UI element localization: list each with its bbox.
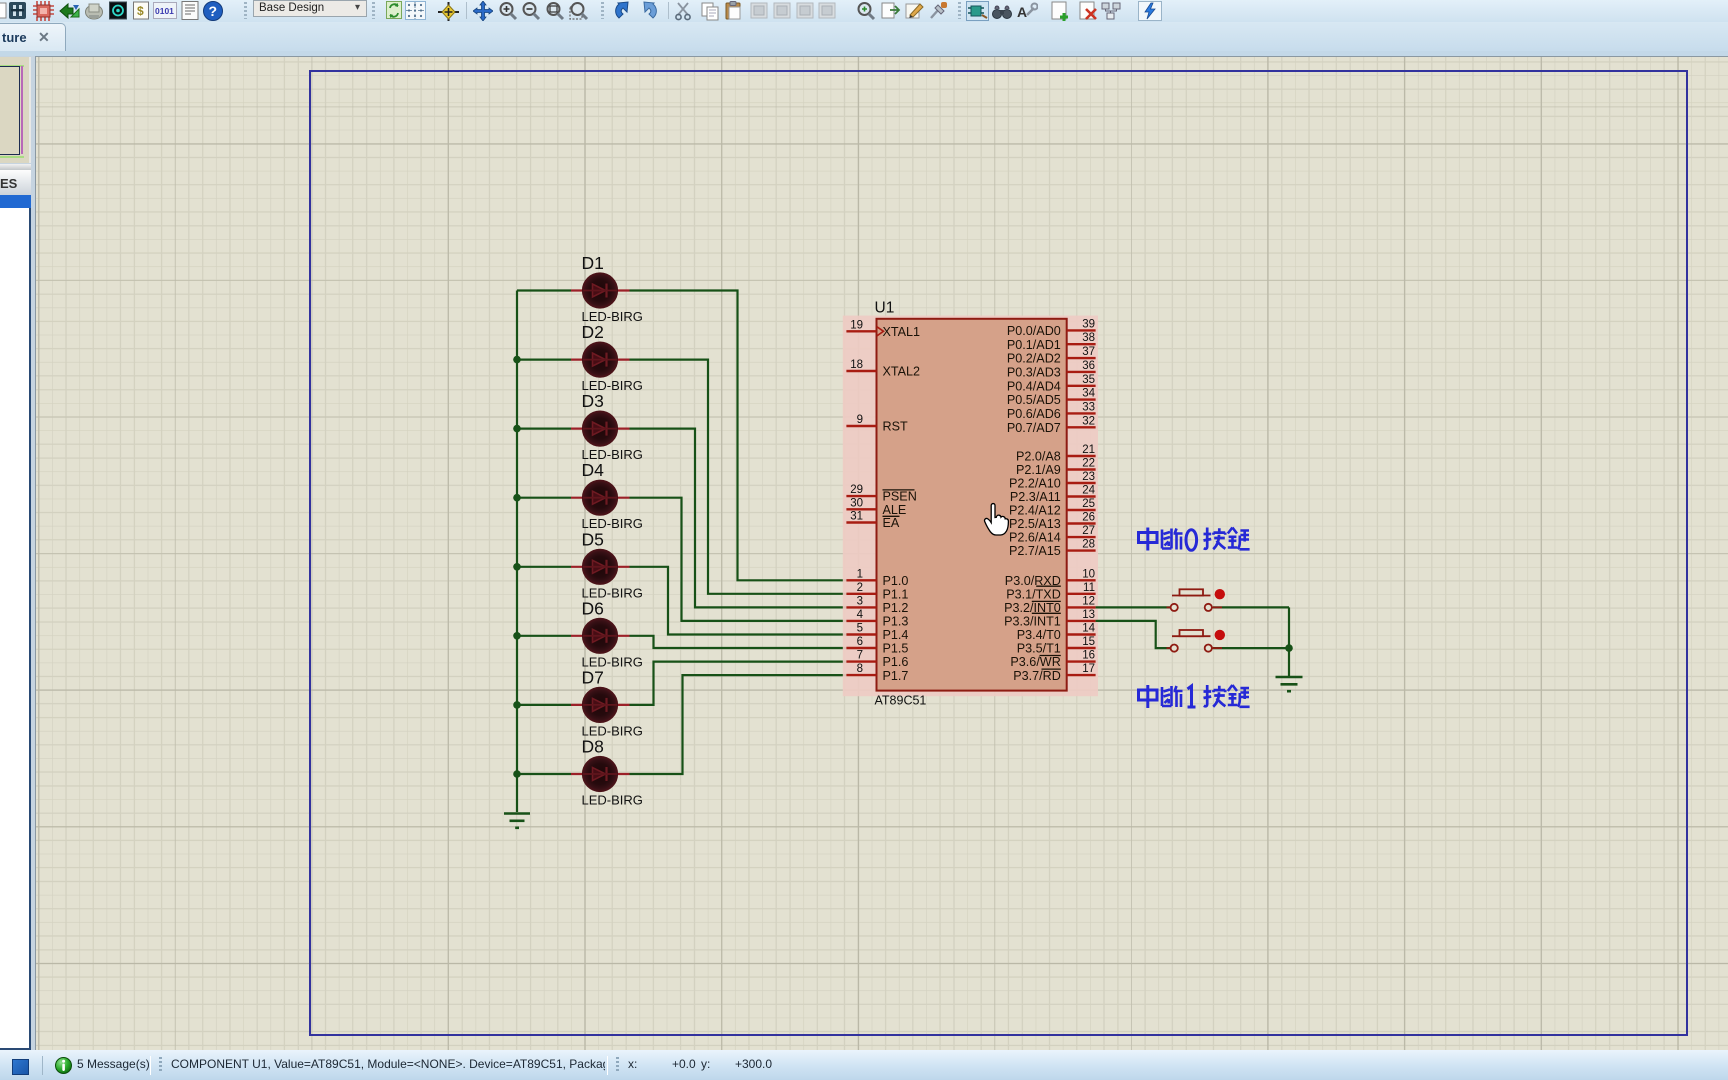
wire: bus to D3 anode <box>517 428 571 430</box>
LED D3 (LED-BIRG) <box>571 411 630 446</box>
svg-text:14: 14 <box>1082 623 1095 635</box>
svg-text:32: 32 <box>1082 415 1095 427</box>
svg-text:22: 22 <box>1082 458 1095 470</box>
svg-text:P0.3/AD3: P0.3/AD3 <box>1007 366 1061 380</box>
wire: bus to D6 anode <box>517 635 571 637</box>
svg-text:P1.6: P1.6 <box>883 655 909 669</box>
node label: 中断1按键 (interrupt 1 button) <box>1139 685 1250 708</box>
toolbar <box>0 0 1728 23</box>
pin 2 (P1.1) stub <box>846 593 876 595</box>
pin 25 (P2.4/A12) stub <box>1067 509 1096 511</box>
svg-text:15: 15 <box>1082 636 1095 648</box>
svg-text:P1.4: P1.4 <box>883 628 909 642</box>
pin 22 (P2.1/A9) stub <box>1067 468 1096 470</box>
pin 19 (XTAL1) stub <box>846 330 876 332</box>
pin 10 (P3.0/RXD) stub <box>1067 579 1096 581</box>
svg-text:P0.5/AD5: P0.5/AD5 <box>1007 393 1061 407</box>
pin 11 (P3.1/TXD) stub <box>1067 593 1096 595</box>
svg-text:P1.2: P1.2 <box>883 601 909 615</box>
svg-text:30: 30 <box>850 497 863 509</box>
LED D4 (LED-BIRG) <box>571 480 630 515</box>
svg-text:P2.5/A13: P2.5/A13 <box>1009 517 1061 531</box>
svg-text:P2.7/A15: P2.7/A15 <box>1009 544 1061 558</box>
svg-text:5: 5 <box>857 623 863 635</box>
svg-text:13: 13 <box>1082 609 1095 621</box>
svg-text:10: 10 <box>1082 568 1095 580</box>
svg-text:38: 38 <box>1082 332 1095 344</box>
svg-text:P1.1: P1.1 <box>883 587 909 601</box>
status bar <box>0 1050 1728 1080</box>
wire: U1 pin 12 (P3.2/INT0) to button KEY0 <box>1096 606 1170 608</box>
svg-text:P3.7/RD: P3.7/RD <box>1013 669 1061 683</box>
svg-text:17: 17 <box>1082 663 1095 675</box>
LED D5 (LED-BIRG) <box>571 550 630 585</box>
svg-text:P2.0/A8: P2.0/A8 <box>1016 450 1061 464</box>
wire: U1 pin 13 (P3.3/INT1) to button KEY1 <box>1096 621 1170 648</box>
svg-text:P2.3/A11: P2.3/A11 <box>1010 490 1061 504</box>
pin 16 (P3.6/WR) stub <box>1067 660 1096 662</box>
overline TXD <box>1036 585 1061 587</box>
left panel <box>0 56 35 1050</box>
svg-text:26: 26 <box>1082 512 1095 524</box>
svg-text:37: 37 <box>1082 346 1095 358</box>
svg-text:2: 2 <box>857 582 863 594</box>
wire: D4 cathode to U1 pin 4 (P1.3) <box>630 498 847 621</box>
pushbutton KEY0 (INT0) <box>1167 589 1223 611</box>
svg-text:21: 21 <box>1082 444 1095 456</box>
svg-text:P3.1/TXD: P3.1/TXD <box>1006 587 1061 601</box>
overline INT0 <box>1032 600 1061 602</box>
pin 12 (P3.2/INT0) stub <box>1067 606 1096 608</box>
svg-text:4: 4 <box>857 609 864 621</box>
pin 7 (P1.6) stub <box>846 660 876 662</box>
wire: bus to D1 anode <box>517 289 571 291</box>
wire: D8 cathode to U1 pin 8 (P1.7) <box>630 675 847 774</box>
pin 3 (P1.2) stub <box>846 606 876 608</box>
svg-text:1: 1 <box>857 568 863 580</box>
pin 28 (P2.7/A15) stub <box>1067 549 1096 551</box>
svg-text:12: 12 <box>1082 595 1095 607</box>
pin 9 (RST) stub <box>846 425 876 427</box>
svg-text:23: 23 <box>1082 471 1095 483</box>
svg-text:P0.1/AD1: P0.1/AD1 <box>1007 338 1061 352</box>
svg-text:P1.3: P1.3 <box>883 615 909 629</box>
svg-text:P3.6/WR: P3.6/WR <box>1010 655 1060 669</box>
svg-text:XTAL2: XTAL2 <box>883 365 921 379</box>
pin 26 (P2.5/A13) stub <box>1067 522 1096 524</box>
svg-text:27: 27 <box>1082 525 1095 537</box>
tab bar <box>0 22 1728 52</box>
ground: buttons ground symbol <box>1276 677 1303 691</box>
wire: bus to D2 anode <box>517 359 571 361</box>
U1 AT89C51 body <box>877 319 1067 691</box>
pin 33 (P0.6/AD6) stub <box>1067 412 1096 414</box>
junction: bus node at D2 <box>513 356 521 364</box>
wire: bus to D7 anode <box>517 704 571 706</box>
actuator dot KEY1 <box>1215 630 1225 640</box>
svg-text:U1: U1 <box>875 300 895 317</box>
svg-text:P2.1/A9: P2.1/A9 <box>1016 463 1061 477</box>
junction: ground rail node <box>1285 644 1293 652</box>
wire: bus to D8 anode <box>517 773 571 775</box>
svg-text:D2: D2 <box>582 322 604 342</box>
overline EA <box>883 515 900 517</box>
svg-text:RST: RST <box>883 420 908 434</box>
pin 5 (P1.4) stub <box>846 633 876 635</box>
svg-text:6: 6 <box>857 636 863 648</box>
pin 8 (P1.7) stub <box>846 674 876 676</box>
svg-text:D4: D4 <box>582 460 605 480</box>
pin 1 (P1.0) stub <box>846 579 876 581</box>
mouse cursor <box>985 504 1009 535</box>
pin 30 (ALE) stub <box>846 508 876 510</box>
pin 4 (P1.3) stub <box>846 620 876 622</box>
pin 15 (P3.5/T1) stub <box>1067 647 1096 649</box>
pin 37 (P0.2/AD2) stub <box>1067 357 1096 359</box>
svg-text:D3: D3 <box>582 391 604 411</box>
svg-text:16: 16 <box>1082 650 1095 662</box>
pin 14 (P3.4/T0) stub <box>1067 633 1096 635</box>
svg-text:11: 11 <box>1083 582 1095 594</box>
svg-text:18: 18 <box>850 359 863 371</box>
pin 17 (P3.7/RD) stub <box>1067 674 1096 676</box>
svg-text:25: 25 <box>1082 498 1095 510</box>
actuator dot KEY0 <box>1215 589 1225 599</box>
wire: bus to D5 anode <box>517 566 571 568</box>
svg-text:P2.2/A10: P2.2/A10 <box>1009 477 1061 491</box>
svg-text:P1.5: P1.5 <box>883 642 909 656</box>
svg-text:P0.7/AD7: P0.7/AD7 <box>1007 421 1061 435</box>
pin 19 clock marker <box>877 327 884 336</box>
ground: LED bus ground symbol <box>504 814 530 828</box>
svg-text:P0.6/AD6: P0.6/AD6 <box>1007 407 1061 421</box>
pin 32 (P0.7/AD7) stub <box>1067 426 1096 428</box>
wire: bus to D4 anode <box>517 497 571 499</box>
svg-text:7: 7 <box>857 650 863 662</box>
svg-text:31: 31 <box>850 511 863 523</box>
svg-text:D7: D7 <box>582 667 604 687</box>
overline RD <box>1042 668 1061 670</box>
pin 23 (P2.2/A10) stub <box>1067 482 1096 484</box>
svg-text:34: 34 <box>1082 388 1095 400</box>
wire: D6 cathode to U1 pin 6 (P1.5) <box>630 636 847 648</box>
pushbutton KEY1 (INT1) <box>1167 630 1223 652</box>
pin 24 (P2.3/A11) stub <box>1067 495 1096 497</box>
wire: D3 cathode to U1 pin 3 (P1.2) <box>630 429 847 608</box>
wire: ground rail vertical <box>1288 607 1290 676</box>
overline INT1 <box>1032 612 1061 614</box>
svg-text:D6: D6 <box>582 598 604 618</box>
LED D7 (LED-BIRG) <box>571 688 630 723</box>
pin 36 (P0.3/AD3) stub <box>1067 371 1096 373</box>
op region: U1 selection halo <box>843 316 1098 697</box>
svg-text:19: 19 <box>850 319 863 331</box>
svg-text:ALE: ALE <box>883 503 907 517</box>
pin 35 (P0.4/AD4) stub <box>1067 385 1096 387</box>
wire: D5 cathode to U1 pin 5 (P1.4) <box>630 567 847 635</box>
svg-text:35: 35 <box>1082 374 1095 386</box>
LED D1 (LED-BIRG) <box>571 273 630 308</box>
wire: KEY1 to ground rail <box>1213 647 1289 649</box>
overline PSEN <box>883 489 915 491</box>
pin 39 (P0.0/AD0) stub <box>1067 329 1096 331</box>
svg-text:D8: D8 <box>582 737 604 757</box>
svg-text:8: 8 <box>857 663 863 675</box>
pin 21 (P2.0/A8) stub <box>1067 455 1096 457</box>
svg-text:P3.5/T1: P3.5/T1 <box>1017 642 1061 656</box>
svg-text:P0.2/AD2: P0.2/AD2 <box>1007 352 1061 366</box>
svg-text:3: 3 <box>857 595 863 607</box>
svg-text:P2.6/A14: P2.6/A14 <box>1009 531 1061 545</box>
pin 6 (P1.5) stub <box>846 647 876 649</box>
pin 29 (PSEN) stub <box>846 495 876 497</box>
overline WR <box>1040 655 1061 657</box>
svg-text:39: 39 <box>1082 318 1095 330</box>
pin 31 (EA) stub <box>846 521 876 523</box>
svg-text:33: 33 <box>1082 401 1095 413</box>
svg-text:EA: EA <box>883 516 900 530</box>
wire: LED anode bus (left vertical) <box>516 291 518 813</box>
wire: D2 cathode to U1 pin 2 (P1.1) <box>630 360 847 594</box>
svg-text:P0.0/AD0: P0.0/AD0 <box>1007 324 1061 338</box>
svg-text:LED-BIRG: LED-BIRG <box>582 793 643 808</box>
pin 34 (P0.5/AD5) stub <box>1067 398 1096 400</box>
LED D6 (LED-BIRG) <box>571 619 630 654</box>
pin 13 (P3.3/INT1) stub <box>1067 620 1096 622</box>
svg-text:P3.3/INT1: P3.3/INT1 <box>1004 615 1061 629</box>
wire: D7 cathode to U1 pin 7 (P1.6) <box>630 662 847 705</box>
svg-text:XTAL1: XTAL1 <box>883 325 921 339</box>
svg-text:28: 28 <box>1082 539 1095 551</box>
svg-text:P1.7: P1.7 <box>883 669 909 683</box>
svg-text:P2.4/A12: P2.4/A12 <box>1009 504 1061 518</box>
pin 18 (XTAL2) stub <box>846 370 876 372</box>
svg-text:D5: D5 <box>582 529 604 549</box>
wire: D1 cathode to U1 pin 1 (P1.0) <box>630 291 847 581</box>
wire: KEY0 to ground rail <box>1213 606 1289 608</box>
svg-text:PSEN: PSEN <box>883 490 917 504</box>
LED D2 (LED-BIRG) <box>571 342 630 377</box>
svg-text:P0.4/AD4: P0.4/AD4 <box>1007 379 1061 393</box>
pin 38 (P0.1/AD1) stub <box>1067 343 1096 345</box>
node label: 中断0按键 (interrupt 0 button) <box>1139 528 1250 551</box>
LED D8 (LED-BIRG) <box>571 757 630 792</box>
svg-text:36: 36 <box>1082 360 1095 372</box>
svg-text:24: 24 <box>1082 485 1095 497</box>
svg-text:AT89C51: AT89C51 <box>875 694 927 708</box>
svg-text:29: 29 <box>850 484 863 496</box>
pin 27 (P2.6/A14) stub <box>1067 536 1096 538</box>
svg-text:P1.0: P1.0 <box>883 574 909 588</box>
svg-text:9: 9 <box>857 414 863 426</box>
svg-text:D1: D1 <box>582 253 604 273</box>
svg-text:P3.4/T0: P3.4/T0 <box>1017 628 1061 642</box>
